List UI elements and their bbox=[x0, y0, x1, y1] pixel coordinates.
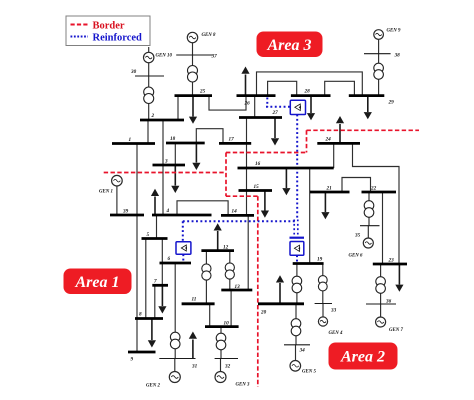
generator GEN 2 bbox=[169, 372, 180, 383]
svg-text:28: 28 bbox=[304, 89, 311, 95]
bus 12 bbox=[201, 249, 234, 252]
bus 20 bbox=[258, 302, 304, 305]
bus bars thick bbox=[110, 96, 407, 352]
wire line 22-23 bbox=[382, 192, 384, 264]
svg-text:10: 10 bbox=[224, 321, 230, 327]
svg-text:Area 3: Area 3 bbox=[267, 37, 312, 54]
generators bbox=[112, 30, 386, 383]
svg-text:32: 32 bbox=[224, 364, 231, 370]
thin generator buses bbox=[135, 54, 396, 359]
svg-text:2: 2 bbox=[151, 113, 155, 119]
load arrow bus23 bbox=[398, 264, 400, 285]
svg-text:5: 5 bbox=[147, 232, 150, 238]
transformer 30-2 bbox=[144, 87, 154, 97]
bus 39 bbox=[110, 214, 144, 217]
bus 34 bbox=[284, 344, 310, 346]
bus 5 bbox=[142, 237, 168, 240]
load arrows bbox=[148, 67, 404, 359]
svg-text:13: 13 bbox=[235, 284, 241, 290]
svg-text:12: 12 bbox=[223, 245, 229, 251]
wire line 23-36 via transformer bbox=[380, 264, 382, 304]
svg-text:38: 38 bbox=[394, 53, 401, 59]
legend reinforced sample bbox=[71, 36, 89, 38]
legend box bbox=[66, 16, 150, 46]
svg-text:GEN 3: GEN 3 bbox=[236, 383, 251, 388]
bus 28 bbox=[291, 94, 331, 97]
svg-text:Reinforced: Reinforced bbox=[93, 33, 143, 44]
wire line 2-25 bbox=[177, 96, 179, 120]
svg-text:Border: Border bbox=[93, 20, 125, 31]
wire line 16-19 bbox=[309, 168, 311, 264]
svg-text:25: 25 bbox=[199, 89, 206, 95]
area labels bbox=[64, 32, 398, 370]
wire line 5-8 bbox=[145, 239, 147, 319]
border segment A horizontal left bbox=[104, 172, 226, 174]
wire gen5 to bus34 bbox=[295, 345, 297, 361]
load arrow bus7 bbox=[161, 285, 163, 306]
bus 1 bbox=[112, 142, 155, 145]
bus 35 bbox=[360, 225, 380, 227]
bus 24 bbox=[317, 142, 360, 145]
reinforced horizontal 14-area bbox=[183, 220, 297, 222]
wire line 23-24 bbox=[353, 143, 400, 264]
reinforced drop to box2 bbox=[182, 221, 184, 242]
svg-text:39: 39 bbox=[122, 209, 129, 215]
bus number labels bbox=[122, 53, 400, 370]
svg-text:17: 17 bbox=[229, 137, 235, 143]
wire line 12-11 via transformer bbox=[205, 251, 207, 304]
wire gen2 to bus31 bbox=[174, 359, 176, 372]
svg-text:20: 20 bbox=[260, 310, 267, 316]
wire line 26-27 bbox=[254, 96, 256, 118]
wire gen10 tail above bus30 bbox=[148, 47, 150, 53]
transformer 37-25 bbox=[188, 66, 198, 76]
wire gen10 to bus2 bbox=[148, 63, 150, 121]
load arrow bus3 bbox=[174, 165, 176, 186]
generator GEN 6 bbox=[363, 238, 373, 248]
border segment F horizontal bbox=[226, 195, 258, 197]
transformer 22-35 bbox=[364, 201, 374, 211]
bus 32 bbox=[215, 358, 238, 360]
generator GEN 3 bbox=[215, 372, 226, 383]
load arrow bus18 bbox=[195, 143, 197, 163]
load arrow bus8 bbox=[151, 319, 153, 341]
svg-text:31: 31 bbox=[191, 364, 198, 370]
wire gen1 to bus39 bbox=[116, 186, 118, 215]
bus 19 bbox=[293, 262, 324, 265]
wire line 2-3 and 3-4 bbox=[162, 120, 164, 215]
load arrow bus29 bbox=[367, 96, 369, 112]
generator GEN 7 bbox=[376, 317, 386, 327]
svg-text:18: 18 bbox=[170, 136, 176, 142]
bus 15 bbox=[239, 189, 273, 192]
wire line 26-28 bracket bbox=[268, 81, 297, 95]
load arrow bus16 bbox=[285, 168, 287, 188]
border segment C horizontal bbox=[226, 152, 307, 154]
bus 27 bbox=[239, 116, 282, 119]
svg-text:GEN 6: GEN 6 bbox=[349, 254, 364, 259]
bus 10 bbox=[205, 325, 239, 328]
svg-text:GEN 10: GEN 10 bbox=[156, 54, 173, 59]
border segment D vertical bbox=[306, 130, 308, 152]
svg-text:37: 37 bbox=[211, 54, 218, 60]
transformer 19-33 bbox=[318, 276, 327, 285]
wire gen4 to bus33 bbox=[322, 304, 324, 318]
Area 3 label bbox=[257, 32, 323, 58]
generator GEN 10 bbox=[144, 52, 154, 62]
svg-text:35: 35 bbox=[354, 233, 361, 239]
load arrow bus24 up bbox=[339, 124, 341, 143]
load arrow bus12 up bbox=[217, 231, 219, 251]
svg-text:7: 7 bbox=[154, 279, 157, 285]
border segment E horizontal right bbox=[307, 129, 420, 131]
generator GEN 4 bbox=[318, 317, 327, 326]
wire gen3 to bus32 bbox=[220, 359, 222, 372]
svg-text:16: 16 bbox=[255, 161, 261, 167]
wire line 10-11 bbox=[209, 304, 211, 327]
transformer 10-32 bbox=[216, 333, 226, 343]
wire line 10-13 bbox=[230, 290, 232, 327]
load arrow bus20 up bbox=[279, 283, 281, 304]
reinforced horizontal to device box1 bbox=[266, 106, 290, 108]
wire line 4-5 bbox=[156, 215, 158, 239]
svg-text:8: 8 bbox=[139, 312, 142, 318]
device boxes bbox=[176, 100, 306, 255]
bus 18 bbox=[166, 142, 205, 145]
generator GEN 5 bbox=[290, 361, 301, 372]
svg-text:14: 14 bbox=[232, 209, 238, 215]
wire line 1-39 and 39-9 bbox=[136, 144, 138, 353]
svg-text:Area 2: Area 2 bbox=[340, 349, 385, 366]
bus 30 bbox=[135, 75, 164, 77]
load arrow bus28 bbox=[310, 96, 312, 113]
wire line 19-33 via transformer bbox=[322, 264, 324, 304]
bus 8 bbox=[135, 317, 163, 320]
legend border sample bbox=[71, 24, 89, 26]
bus 38 bbox=[364, 53, 391, 55]
load arrow bus25 bbox=[192, 96, 194, 117]
svg-text:9: 9 bbox=[131, 357, 134, 363]
svg-text:6: 6 bbox=[168, 256, 171, 262]
svg-text:33: 33 bbox=[330, 308, 337, 314]
border segment B vertical bbox=[225, 153, 227, 197]
load arrow bus15 bbox=[264, 191, 266, 211]
bus 29 bbox=[349, 94, 385, 97]
svg-text:GEN 5: GEN 5 bbox=[302, 370, 317, 375]
generator labels bbox=[99, 29, 404, 389]
reinforced series bar above box3 bbox=[290, 237, 305, 239]
bus 16 bbox=[238, 167, 334, 170]
load arrow bus21 bbox=[324, 192, 326, 212]
reinforced box3 to bus19 bbox=[296, 255, 298, 263]
transformer 19-20 bbox=[292, 276, 302, 286]
load arrow bus31 up bbox=[192, 340, 194, 359]
bus 6 bbox=[160, 262, 192, 265]
wire line 28-29 bracket bbox=[325, 81, 355, 95]
generator GEN 8 bbox=[187, 32, 197, 42]
bus 11 bbox=[182, 302, 215, 305]
wire line 3-18 bbox=[174, 143, 176, 165]
load arrow bus27 bbox=[274, 118, 276, 139]
bus 7 bbox=[152, 284, 168, 287]
bus 26 bbox=[237, 94, 276, 97]
svg-text:26: 26 bbox=[244, 101, 251, 107]
wire line 26-29 bracket bbox=[257, 72, 363, 96]
transformer 20-34 bbox=[291, 319, 301, 329]
generator GEN 9 bbox=[374, 30, 384, 40]
svg-text:24: 24 bbox=[325, 137, 332, 143]
svg-text:27: 27 bbox=[272, 110, 279, 116]
wire line 20-34 via transformer bbox=[295, 304, 297, 345]
svg-text:34: 34 bbox=[299, 348, 306, 354]
wire line 6-31 via transformer bbox=[174, 263, 176, 359]
svg-text:GEN 2: GEN 2 bbox=[146, 384, 161, 389]
transformer 38-29 bbox=[374, 63, 384, 73]
bus 22 bbox=[362, 191, 397, 194]
transformer 6-31 bbox=[170, 332, 180, 342]
reinforced vertical main double dotted bbox=[296, 115, 298, 221]
wire line 7-8 bbox=[154, 285, 156, 318]
bus 36 bbox=[366, 303, 396, 305]
load arrow bus4 up bbox=[154, 197, 156, 216]
border segment G vertical long bbox=[257, 196, 259, 387]
blue reinforced dotted lines bbox=[183, 98, 304, 264]
wire line 16-24 bbox=[333, 143, 335, 168]
Area 2 label bbox=[329, 343, 398, 370]
device box U1 near bus 27 bbox=[290, 100, 305, 114]
generator GEN 1 bbox=[112, 175, 123, 186]
wire line 17-18 bracket bbox=[196, 129, 223, 144]
svg-text:21: 21 bbox=[326, 186, 333, 192]
bus 37 bbox=[176, 54, 212, 56]
wire line 21-22 bracket bbox=[342, 178, 371, 193]
wire line 22-35 via transformer bbox=[368, 192, 370, 226]
bus 14 bbox=[221, 214, 254, 217]
wire gen9 to bus29 bbox=[378, 39, 380, 96]
wire gen8 to bus25 bbox=[192, 43, 194, 96]
transformer 23-36 bbox=[376, 277, 386, 287]
bus 4 bbox=[152, 214, 212, 217]
wire line 27-17-16-15-14 bbox=[246, 118, 248, 216]
wire gen7 to bus36 bbox=[380, 304, 382, 317]
wire line 19-20 via transformer bbox=[296, 264, 298, 304]
wire line 12-13 via transformer bbox=[229, 251, 231, 290]
svg-text:29: 29 bbox=[388, 100, 395, 106]
Area 1 label bbox=[64, 269, 132, 295]
svg-text:11: 11 bbox=[192, 297, 197, 303]
bus 25 bbox=[175, 94, 213, 97]
wire line 13-14 bbox=[247, 215, 249, 290]
svg-text:19: 19 bbox=[317, 257, 323, 263]
svg-text:3: 3 bbox=[164, 159, 168, 165]
bus 21 bbox=[310, 191, 350, 194]
load arrow bus26 up bbox=[245, 75, 247, 96]
wire gen6 to bus35 bbox=[367, 226, 369, 238]
bus 9 bbox=[128, 351, 156, 354]
bus 13 bbox=[221, 289, 252, 292]
reinforced box2 to bus6 bbox=[182, 254, 184, 263]
svg-text:15: 15 bbox=[254, 184, 260, 190]
svg-text:GEN 8: GEN 8 bbox=[202, 33, 217, 38]
svg-text:GEN 7: GEN 7 bbox=[389, 328, 404, 333]
wire line 4-14 bracket bbox=[177, 201, 228, 216]
bus 2 bbox=[140, 119, 184, 122]
bus 17 bbox=[219, 142, 251, 145]
svg-text:Area 1: Area 1 bbox=[75, 274, 120, 291]
svg-text:GEN 9: GEN 9 bbox=[387, 29, 402, 34]
svg-text:30: 30 bbox=[130, 69, 137, 75]
red border dashed lines bbox=[104, 130, 419, 387]
svg-text:GEN 4: GEN 4 bbox=[329, 331, 344, 336]
svg-text:23: 23 bbox=[388, 258, 395, 264]
wire line 10-32 via transformer bbox=[220, 327, 222, 359]
bus 23 bbox=[373, 263, 407, 266]
bus 3 bbox=[153, 164, 186, 167]
wire line 1-2 bbox=[147, 120, 149, 144]
transformer 12-13 bbox=[225, 263, 234, 272]
svg-text:GEN 1: GEN 1 bbox=[99, 190, 113, 195]
transformers bbox=[144, 63, 386, 350]
wire line 5-6 and 6-7 bbox=[161, 239, 163, 286]
reinforced bus26 drop bbox=[266, 98, 268, 108]
wire line 25-26 bbox=[209, 96, 246, 111]
bus 33 bbox=[315, 303, 332, 305]
wires group bbox=[117, 39, 399, 372]
svg-text:22: 22 bbox=[370, 186, 377, 192]
svg-text:36: 36 bbox=[385, 299, 392, 305]
bus 31 bbox=[159, 358, 195, 360]
transformer 12-11 bbox=[202, 264, 211, 273]
device box U3 near bus 19 bbox=[290, 242, 304, 256]
svg-text:1: 1 bbox=[129, 137, 132, 143]
device box U2 near bus 6 bbox=[176, 242, 191, 254]
svg-text:4: 4 bbox=[166, 208, 170, 214]
